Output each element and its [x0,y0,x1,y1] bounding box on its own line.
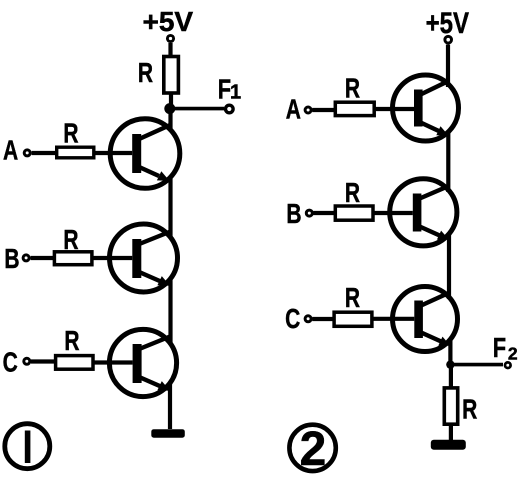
svg-text:R: R [345,178,360,209]
svg-text:R: R [63,119,78,150]
svg-text:R: R [462,395,477,426]
svg-text:R: R [64,326,79,357]
svg-text:A: A [3,136,18,167]
svg-text:B: B [286,199,301,230]
svg-text:2: 2 [508,344,518,364]
svg-text:R: R [63,225,78,256]
svg-text:C: C [285,304,300,335]
svg-text:R: R [345,283,360,314]
svg-text:A: A [286,95,301,126]
svg-text:R: R [138,58,153,89]
svg-text:C: C [3,348,18,379]
svg-text:+5V: +5V [142,6,193,37]
svg-text:+5V: +5V [426,5,469,39]
svg-text:1: 1 [230,82,241,104]
svg-text:R: R [345,74,360,105]
svg-text:2: 2 [300,423,327,476]
svg-text:B: B [4,244,19,275]
svg-text:F: F [493,332,506,363]
